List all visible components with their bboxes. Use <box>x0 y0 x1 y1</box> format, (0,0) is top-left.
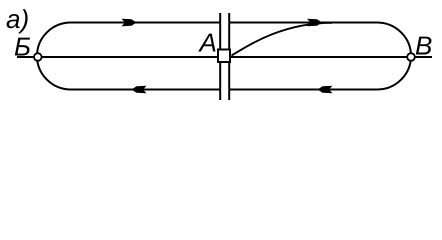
svg-text:а): а) <box>6 4 29 34</box>
svg-text:А: А <box>198 28 217 58</box>
svg-text:В: В <box>415 31 432 61</box>
svg-text:Б: Б <box>14 32 31 62</box>
